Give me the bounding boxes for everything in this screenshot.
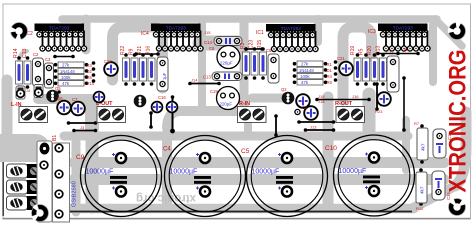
svg-text:47k: 47k xyxy=(62,81,70,86)
pad P1 xyxy=(295,109,300,114)
wire: middle column blob behind C14 xyxy=(200,36,238,51)
svg-text:C10: C10 xyxy=(325,145,337,152)
svg-text:R19: R19 xyxy=(350,46,356,55)
mounting hole top-left xyxy=(10,23,28,41)
jumper J13 xyxy=(304,125,336,132)
wire: vertical right of C10 xyxy=(402,120,410,170)
capacitor C17 xyxy=(386,50,399,92)
svg-text:27k: 27k xyxy=(62,63,70,68)
svg-text:R6: R6 xyxy=(87,75,93,80)
svg-text:C12: C12 xyxy=(104,59,112,64)
svg-text:J18: J18 xyxy=(318,99,325,104)
capacitor C16 xyxy=(157,57,168,91)
wire: middle column right leg xyxy=(240,22,249,112)
resistor R10 47k xyxy=(54,81,89,86)
jumper J8 vertical long xyxy=(170,95,175,133)
svg-text:J13: J13 xyxy=(310,125,317,130)
mounting hole top-right xyxy=(448,22,466,40)
wire: band behind group A transistors xyxy=(38,94,92,104)
svg-text:47k: 47k xyxy=(301,80,309,85)
jumper J3 xyxy=(67,121,98,125)
wire: small arc near R14 xyxy=(19,51,27,62)
svg-text:C19: C19 xyxy=(210,89,218,94)
svg-text:4k7: 4k7 xyxy=(421,143,426,151)
resistor C23 xyxy=(251,47,258,80)
svg-text:R5: R5 xyxy=(359,48,365,55)
wire: bottom ground bus xyxy=(56,204,414,214)
bridge rectifier GSIB2580 xyxy=(53,143,78,222)
wire: thin middle link xyxy=(241,22,247,40)
wire: bottom-right diagonal xyxy=(412,186,455,209)
wire: vertical between C5 and C10 xyxy=(323,97,334,207)
capacitor C13m film xyxy=(203,72,242,81)
svg-text:D1: D1 xyxy=(327,68,333,73)
svg-text:J15: J15 xyxy=(204,30,211,35)
jumper J8b vertical xyxy=(375,82,379,111)
jumper J5 xyxy=(134,52,160,56)
svg-text:R4: R4 xyxy=(327,74,333,79)
svg-text:C16: C16 xyxy=(158,95,166,100)
dark trace line along bottom bus xyxy=(60,211,412,213)
capacitor C11 xyxy=(433,129,452,158)
resistor R22 xyxy=(123,53,130,86)
resistor R20 xyxy=(371,53,378,86)
svg-text:1µF: 1µF xyxy=(162,72,167,80)
resistor R15 xyxy=(260,47,267,80)
svg-text:C13: C13 xyxy=(22,48,28,58)
jumper J7 vertical xyxy=(149,111,153,129)
jumper J9 vertical xyxy=(402,76,406,132)
svg-text:R23: R23 xyxy=(375,109,383,114)
op-amp IC4 TDA7293 xyxy=(151,24,203,52)
capacitor C14 film xyxy=(204,37,242,46)
op-amp IC1 TDA7293 xyxy=(266,24,318,52)
connector AC terminal 3 xyxy=(7,196,42,210)
svg-text:R7: R7 xyxy=(414,121,420,126)
wire: vertical link at R-IN xyxy=(244,122,252,133)
wire: middle column left leg xyxy=(198,22,206,106)
svg-text:R9: R9 xyxy=(129,48,135,55)
capacitor C4 10000uF xyxy=(165,136,246,217)
transistor Q5 xyxy=(46,90,59,103)
svg-text:R12: R12 xyxy=(416,206,424,211)
svg-text:B1: B1 xyxy=(52,135,58,141)
board edge dark left segment xyxy=(2,150,4,216)
capacitor C26 xyxy=(152,102,163,113)
capacitor C27 xyxy=(167,102,178,113)
connector P4 below C2 xyxy=(34,85,43,98)
op-amp IC2 TDA7293 xyxy=(35,24,87,52)
resistor R12 4k7 xyxy=(416,168,427,211)
board edge dark bottom segment xyxy=(3,218,471,220)
jumper J17 vertical xyxy=(274,114,278,137)
capacitor C12 xyxy=(104,62,118,76)
wire: left mid blob xyxy=(0,134,36,162)
jumper J12 under IC1 xyxy=(244,47,264,51)
mounting hole bottom-left xyxy=(27,200,52,225)
capacitor C5 10000uF xyxy=(247,136,328,217)
via column group C xyxy=(334,60,338,82)
svg-text:IC3: IC3 xyxy=(368,29,376,35)
svg-text:100k: 100k xyxy=(61,75,71,80)
svg-text:C21: C21 xyxy=(337,56,345,61)
svg-text:R14: R14 xyxy=(13,48,19,58)
svg-text:R3: R3 xyxy=(87,63,93,68)
svg-text:C3: C3 xyxy=(45,57,51,62)
svg-text:1N4148: 1N4148 xyxy=(60,69,75,74)
svg-text:Q2: Q2 xyxy=(281,87,287,92)
svg-text:R1: R1 xyxy=(327,62,333,67)
svg-text:1N4148: 1N4148 xyxy=(299,68,314,73)
wire: right band under IC3 pins xyxy=(429,25,437,82)
capacitor C19 220uF xyxy=(217,87,240,110)
svg-text:C5: C5 xyxy=(266,48,272,53)
wire: loop between IC1 and IC3 xyxy=(343,27,372,100)
capacitor C28 xyxy=(377,92,391,106)
transistor Q2 xyxy=(134,95,147,108)
svg-text:C14: C14 xyxy=(204,40,213,45)
wire: stub down from bus right of IC1 xyxy=(314,19,322,42)
svg-text:Q5: Q5 xyxy=(55,86,61,91)
jumper J20 xyxy=(72,125,97,132)
svg-text:4k7: 4k7 xyxy=(420,186,425,194)
resistor R14 xyxy=(16,56,23,89)
capacitor C25 xyxy=(296,94,310,108)
svg-text:Q6: Q6 xyxy=(57,96,63,101)
wire: lower bus through capacitor row xyxy=(74,174,444,185)
svg-text:GSIB2580: GSIB2580 xyxy=(72,181,78,207)
capacitor C15 xyxy=(432,171,451,200)
transistor Q1 xyxy=(282,92,295,105)
wire: upper bus through capacitor row xyxy=(74,157,444,168)
svg-text:C5: C5 xyxy=(241,148,250,155)
diode D1 1N4148 xyxy=(293,67,328,72)
via column group A xyxy=(92,61,96,83)
wire: band behind group C transistors xyxy=(252,94,290,103)
capacitor C9 10000uF xyxy=(81,136,162,217)
wire: vertical right of GSIB2580 xyxy=(72,142,81,212)
svg-text:C6: C6 xyxy=(209,46,215,51)
op-amp IC3 TDA7293 xyxy=(378,24,430,52)
jumper J1 under IC2 xyxy=(53,55,75,59)
resistor R3 27k xyxy=(54,62,89,67)
capacitor C21 xyxy=(339,62,353,76)
resistor R11 4k7 xyxy=(414,121,428,164)
svg-text:100k: 100k xyxy=(300,74,310,79)
wire: top supply bus xyxy=(62,15,437,23)
jumper J11 xyxy=(297,120,335,124)
wire: elbow from mid bus to R-IN xyxy=(167,111,252,128)
capacitor C10 10000uF xyxy=(334,135,415,216)
resistor R21 xyxy=(140,53,147,86)
svg-text:J14: J14 xyxy=(191,78,198,83)
resistor R2 xyxy=(243,47,250,80)
svg-text:C13: C13 xyxy=(203,75,211,80)
svg-text:R22: R22 xyxy=(120,46,126,55)
resistor R16 xyxy=(148,53,155,86)
pad P3 xyxy=(57,90,61,94)
capacitor C3 xyxy=(45,63,54,88)
capacitor C7 xyxy=(57,101,71,115)
capacitor C3b xyxy=(268,54,279,83)
capacitor C6 220uF xyxy=(217,46,240,69)
jumper J14 xyxy=(188,78,221,86)
resistor R8 47k xyxy=(293,80,328,85)
svg-text:27k: 27k xyxy=(301,62,309,67)
svg-text:C7: C7 xyxy=(72,97,78,102)
resistor R4 100k xyxy=(293,73,328,78)
connector AC terminal 2 xyxy=(7,180,42,194)
mounting hole bottom-right xyxy=(444,194,469,219)
svg-text:J16: J16 xyxy=(352,94,359,99)
connector B1 xyxy=(37,135,58,222)
svg-text:D2: D2 xyxy=(87,69,93,74)
svg-text:J6: J6 xyxy=(403,47,408,52)
svg-text:R20: R20 xyxy=(367,46,373,55)
capacitor C20 xyxy=(94,92,105,103)
wire: band behind R-OUT xyxy=(363,94,376,130)
diode D2 1N4148 xyxy=(54,68,89,73)
wire: top-right diagonal to corner xyxy=(435,19,462,46)
connector P2 xyxy=(16,86,31,99)
resistor R5 xyxy=(363,53,370,86)
connector AC terminal 1 xyxy=(7,164,42,178)
resistor R6 100k xyxy=(54,74,89,79)
resistor R1 27k xyxy=(293,61,328,66)
wire: mid horizontal bus above capacitors xyxy=(64,132,408,141)
wire: left edge vertical band xyxy=(2,80,13,140)
resistor R9 xyxy=(131,53,138,86)
resistor C13 xyxy=(24,56,31,89)
wire: band left of L-OUT xyxy=(85,101,99,128)
jumper J10 xyxy=(315,94,371,104)
svg-text:IC1: IC1 xyxy=(256,30,264,36)
wire: loop between IC2 and IC4 xyxy=(113,27,163,88)
wire: right edge riser xyxy=(455,112,466,186)
wire: stub down from bus right of IC2 xyxy=(82,19,91,50)
svg-text:R8: R8 xyxy=(327,80,333,85)
svg-text:XTRONIC.ORG: XTRONIC.ORG xyxy=(445,50,472,193)
svg-text:C2: C2 xyxy=(302,105,308,110)
svg-text:C9: C9 xyxy=(76,154,85,161)
capacitor C2 xyxy=(33,58,44,86)
wire: vertical left of C9 xyxy=(86,126,99,207)
capacitor C1 xyxy=(71,102,85,116)
svg-text:C2: C2 xyxy=(33,52,39,57)
capacitor C2b xyxy=(304,106,318,120)
wire: vertical between C9 and C4 xyxy=(162,133,172,207)
jumper J6 xyxy=(376,47,420,55)
resistor R19 xyxy=(354,53,361,86)
svg-text:IC4: IC4 xyxy=(141,31,149,37)
svg-text:C23: C23 xyxy=(249,40,255,49)
svg-text:C4: C4 xyxy=(163,147,171,153)
resistor R13 xyxy=(380,53,387,86)
